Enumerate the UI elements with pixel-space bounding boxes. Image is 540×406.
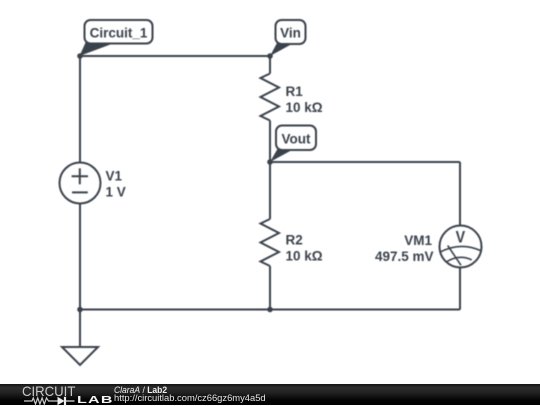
wire top horizontal [80, 55, 270, 57]
svg-text:10 kΩ: 10 kΩ [286, 249, 323, 264]
node junction dot bottom center [267, 307, 273, 313]
svg-text:V1: V1 [106, 169, 123, 184]
wire right vertical lower [459, 268, 461, 310]
node Vin junction dot [267, 53, 273, 59]
svg-text:VM1: VM1 [404, 233, 432, 248]
node Vout junction dot [267, 159, 273, 165]
svg-text:R1: R1 [286, 84, 304, 99]
svg-text:Vin: Vin [280, 25, 301, 40]
svg-text:497.5 mV: 497.5 mV [375, 249, 434, 264]
svg-text:R2: R2 [286, 233, 303, 248]
svg-text:10 kΩ: 10 kΩ [286, 100, 323, 115]
wire right vertical upper [459, 162, 461, 226]
CircuitLab logo [22, 384, 75, 400]
wire Vout horizontal [270, 161, 460, 163]
wire left vertical lower [79, 204, 81, 310]
wire Vin lead down [269, 56, 271, 74]
resistor R2 [261, 219, 323, 266]
wire bottom horizontal [80, 309, 460, 311]
footer bar [0, 384, 540, 405]
voltmeter VM1 [375, 226, 482, 268]
svg-text:Vout: Vout [282, 132, 311, 147]
svg-text:Circuit_1: Circuit_1 [90, 25, 148, 40]
ground [62, 347, 98, 365]
wire Vout node to R2 [269, 162, 271, 219]
wire left vertical upper [79, 56, 81, 163]
wire R2 to bottom [269, 266, 271, 310]
resistor R1 [261, 74, 323, 121]
voltage source V1 [60, 163, 126, 204]
node flag Vin [270, 20, 306, 56]
wire R1 to Vout node [269, 121, 271, 163]
svg-text:V: V [456, 228, 466, 246]
node flag Circuit_1 [80, 20, 153, 56]
node flag Vout [270, 126, 316, 163]
node A junction dot top-left [77, 53, 83, 59]
node junction dot bottom left [77, 307, 83, 313]
wire ground lead [79, 310, 81, 348]
svg-text:1 V: 1 V [106, 185, 126, 200]
footer titles [114, 385, 167, 395]
